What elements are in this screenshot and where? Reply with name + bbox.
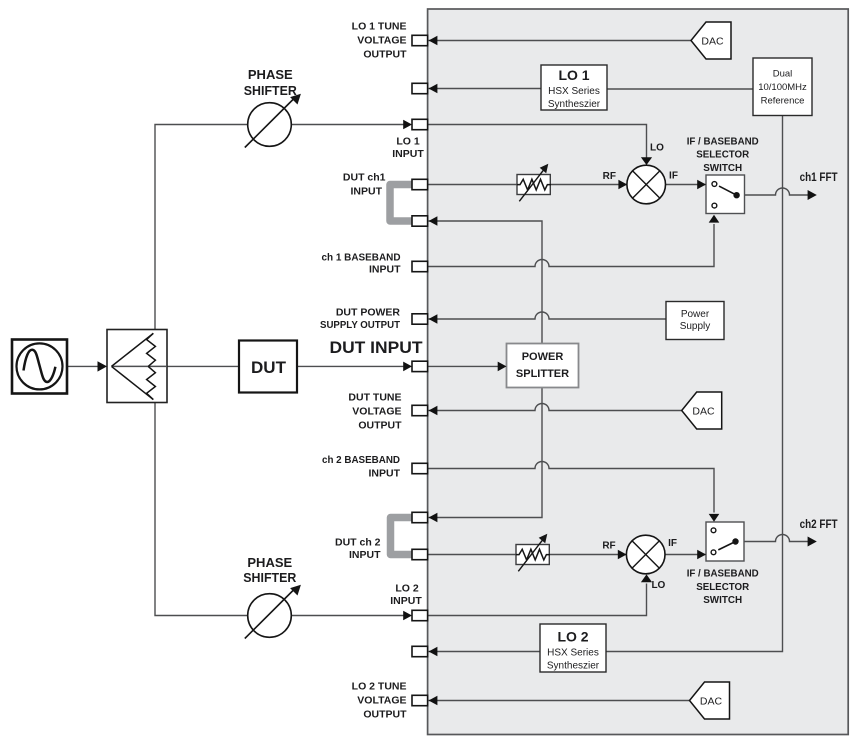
- arrow RF into mixer2: [618, 550, 627, 560]
- port LO2 synth: [412, 646, 428, 656]
- arrow into port15: [429, 696, 438, 706]
- svg-text:ch1 FFT: ch1 FFT: [800, 172, 838, 184]
- variable attenuator 1: [517, 164, 551, 202]
- svg-text:DAC: DAC: [701, 35, 724, 47]
- wire DAC2 to DUT tune port: [429, 404, 682, 411]
- port jumper1 lower: [412, 216, 428, 226]
- arrow into port7: [429, 314, 438, 324]
- wire reference riser to LO2 synth: [606, 116, 783, 652]
- svg-text:IF / BASEBAND: IF / BASEBAND: [687, 135, 759, 147]
- arrow into splitter: [98, 361, 108, 371]
- wire switch2 to ch2 FFT: [744, 535, 809, 542]
- phase shifter 2: [245, 585, 301, 639]
- wire DAC3 to LO2 tune port: [429, 700, 690, 702]
- svg-text:PHASE: PHASE: [248, 67, 293, 82]
- power supply box: [666, 302, 724, 340]
- wire LO1 input to mixer1 LO: [428, 125, 647, 165]
- svg-text:Reference: Reference: [761, 96, 805, 107]
- wire switch1 to ch1 FFT: [745, 188, 809, 195]
- wire ch2 baseband to switch2 top: [428, 462, 714, 513]
- wire riser to jumper1 lower port: [429, 221, 542, 344]
- svg-text:DUT POWER: DUT POWER: [336, 307, 401, 319]
- port LO1 tune voltage output: [412, 35, 428, 45]
- arrow into port14: [429, 647, 438, 657]
- arrow IF into switch1: [697, 180, 706, 190]
- svg-text:LO 2: LO 2: [395, 583, 418, 595]
- wire ch1 baseband to switch1 bottom: [428, 224, 714, 267]
- port DUT input: [412, 361, 428, 371]
- wire riser splitter bottom to phase shifter 2: [155, 403, 404, 616]
- svg-text:INPUT: INPUT: [390, 595, 422, 607]
- arrow LO up into mixer2: [641, 574, 652, 582]
- jumper cable ch2: [391, 518, 414, 555]
- svg-text:SELECTOR: SELECTOR: [696, 581, 749, 593]
- arrow into port8 DUT input: [403, 362, 412, 372]
- wire mixer1 IF to switch1: [666, 184, 707, 186]
- svg-text:Syntheszier: Syntheszier: [548, 99, 601, 110]
- svg-text:DUT ch1: DUT ch1: [343, 172, 386, 184]
- port LO2 input: [412, 610, 428, 620]
- svg-text:Supply: Supply: [680, 321, 711, 332]
- jumper cable ch1: [390, 185, 413, 222]
- wire DUT to DUT INPUT port: [297, 365, 404, 367]
- arrow into port2: [429, 84, 438, 94]
- svg-text:INPUT: INPUT: [369, 264, 401, 276]
- port jumper2 upper: [412, 512, 428, 522]
- svg-text:ch 2 BASEBAND: ch 2 BASEBAND: [322, 454, 400, 466]
- svg-text:OUTPUT: OUTPUT: [358, 420, 402, 432]
- arrow into port1: [429, 36, 438, 46]
- svg-text:RF: RF: [603, 171, 616, 182]
- wire ch1 RF chain: [428, 184, 627, 186]
- svg-text:LO: LO: [651, 580, 665, 591]
- svg-text:INPUT: INPUT: [369, 467, 401, 479]
- arrow into port3 LO1 input: [403, 120, 412, 130]
- wire LO1 synth to port2: [429, 88, 541, 90]
- LO 2 HSX synthesizer box: [540, 624, 606, 672]
- svg-text:SELECTOR: SELECTOR: [696, 149, 749, 161]
- arrow down into switch2 top: [709, 514, 720, 522]
- svg-text:Dual: Dual: [773, 69, 793, 80]
- arrow into port13 LO2 input: [403, 611, 412, 621]
- splitter (power divider with resistors): [107, 330, 167, 403]
- svg-text:SHIFTER: SHIFTER: [243, 570, 297, 585]
- svg-text:DUT INPUT: DUT INPUT: [330, 338, 424, 357]
- oscillator source: [12, 340, 67, 394]
- svg-text:Power: Power: [681, 309, 710, 320]
- svg-text:VOLTAGE: VOLTAGE: [352, 405, 401, 417]
- wire power supply to port7: [429, 312, 666, 319]
- port DUT tune voltage output: [412, 405, 428, 415]
- arrow ch1 FFT: [808, 190, 817, 200]
- svg-text:ch 1 BASEBAND: ch 1 BASEBAND: [322, 251, 401, 263]
- svg-text:LO 1: LO 1: [396, 135, 419, 147]
- wire osc to splitter: [67, 365, 99, 367]
- wire LO2 input to mixer2 LO: [428, 584, 647, 616]
- svg-text:LO 1: LO 1: [558, 67, 589, 83]
- svg-text:INPUT: INPUT: [392, 148, 424, 160]
- arrow into port9: [429, 406, 438, 416]
- svg-text:DAC: DAC: [700, 695, 723, 707]
- wire splitter to DUT: [167, 365, 239, 367]
- variable attenuator 2: [516, 534, 550, 572]
- wire LO2 synth to port14: [429, 651, 540, 653]
- arrow into power splitter box: [498, 362, 507, 372]
- svg-text:LO 2: LO 2: [557, 629, 588, 645]
- svg-text:10/100MHz: 10/100MHz: [758, 82, 807, 93]
- svg-text:ch2 FFT: ch2 FFT: [800, 519, 838, 531]
- instrument enclosure: [428, 9, 849, 735]
- port DUT ch1 input: [412, 179, 428, 189]
- Dual 10/100MHz reference box: [753, 58, 812, 116]
- DAC 3: [690, 682, 730, 719]
- IF/baseband selector switch 2: [706, 522, 744, 561]
- arrow into port11: [429, 513, 438, 523]
- svg-text:VOLTAGE: VOLTAGE: [357, 35, 406, 47]
- svg-text:SPLITTER: SPLITTER: [516, 368, 569, 380]
- wire LO1 synth to Dual reference: [607, 88, 753, 90]
- port LO1 synth: [412, 83, 428, 93]
- svg-text:OUTPUT: OUTPUT: [363, 709, 407, 721]
- arrow into port5: [429, 216, 438, 226]
- svg-text:DUT ch 2: DUT ch 2: [335, 536, 381, 548]
- svg-text:SWITCH: SWITCH: [703, 594, 742, 606]
- arrow up into switch1 bottom: [709, 215, 720, 223]
- svg-text:HSX Series: HSX Series: [548, 86, 600, 97]
- IF/baseband selector switch 1: [706, 175, 745, 214]
- svg-text:INPUT: INPUT: [349, 549, 381, 561]
- phase shifter 1: [245, 94, 301, 148]
- svg-text:LO 2 TUNE: LO 2 TUNE: [352, 681, 407, 693]
- svg-text:SHIFTER: SHIFTER: [244, 83, 298, 98]
- svg-text:IF: IF: [668, 538, 677, 549]
- mixer 2: [626, 535, 665, 574]
- wire mixer2 IF to switch2: [665, 554, 706, 556]
- svg-text:HSX Series: HSX Series: [547, 648, 599, 659]
- svg-text:POWER: POWER: [522, 351, 564, 363]
- svg-text:PHASE: PHASE: [247, 555, 292, 570]
- svg-text:DAC: DAC: [692, 405, 715, 417]
- DUT box: [239, 341, 297, 393]
- port LO1 input: [412, 119, 428, 129]
- wire riser splitter bottom segment to jumper2 upper port: [429, 388, 542, 518]
- port ch1 baseband input: [412, 261, 428, 271]
- svg-text:IF / BASEBAND: IF / BASEBAND: [687, 568, 759, 580]
- wire DUT INPUT port to power splitter: [428, 365, 498, 367]
- svg-text:INPUT: INPUT: [351, 186, 383, 198]
- svg-text:DUT: DUT: [251, 358, 287, 377]
- svg-text:SWITCH: SWITCH: [703, 162, 742, 174]
- arrow IF into switch2: [697, 550, 706, 560]
- svg-text:LO 1 TUNE: LO 1 TUNE: [352, 21, 407, 33]
- wire riser splitter top to phase shifter 1: [155, 125, 404, 330]
- svg-text:DUT TUNE: DUT TUNE: [348, 391, 401, 403]
- svg-text:LO: LO: [650, 143, 664, 154]
- LO 1 HSX synthesizer box: [541, 65, 607, 110]
- svg-text:OUTPUT: OUTPUT: [363, 49, 407, 61]
- mixer 1: [627, 165, 666, 204]
- DAC 2: [682, 392, 722, 429]
- wire ch2 RF chain: [428, 554, 626, 556]
- port LO2 tune voltage output: [412, 695, 428, 705]
- port DUT ch2 input: [412, 549, 428, 559]
- port DUT power supply output: [412, 314, 428, 324]
- wire DAC1 to LO1 tune port: [429, 40, 691, 42]
- arrow RF into mixer1: [618, 180, 627, 190]
- svg-text:SUPPLY OUTPUT: SUPPLY OUTPUT: [320, 319, 401, 331]
- arrow LO down into mixer1: [641, 157, 652, 165]
- svg-text:Syntheszier: Syntheszier: [547, 661, 600, 672]
- svg-text:RF: RF: [602, 541, 615, 552]
- DAC 1: [691, 22, 731, 59]
- arrow ch2 FFT: [808, 537, 817, 547]
- POWER SPLITTER box: [507, 344, 579, 388]
- svg-text:VOLTAGE: VOLTAGE: [357, 695, 406, 707]
- port ch2 baseband input: [412, 463, 428, 473]
- svg-text:IF: IF: [669, 171, 678, 182]
